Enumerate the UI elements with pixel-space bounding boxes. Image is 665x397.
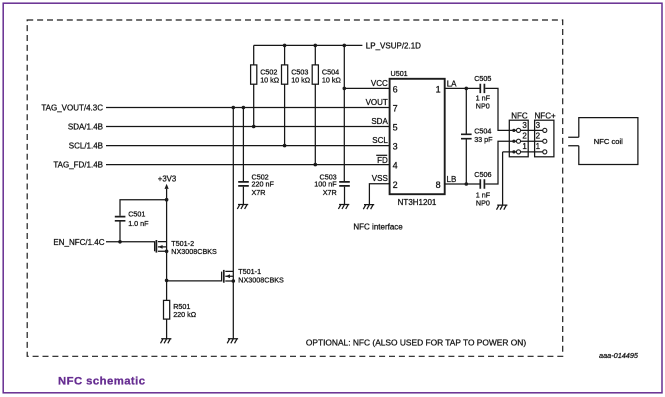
svg-text:NFC interface: NFC interface — [353, 222, 403, 231]
svg-text:4: 4 — [393, 161, 398, 171]
svg-text:U501: U501 — [391, 69, 408, 78]
wire T501-1 drain/source column — [232, 108, 234, 339]
ground (C502) — [237, 204, 248, 209]
svg-text:NP0: NP0 — [476, 198, 490, 207]
svg-text:NX3008CBKS: NX3008CBKS — [171, 247, 217, 256]
capacitor C504 33pF between LA and LB — [465, 88, 467, 184]
svg-text:TAG_FD/1.4B: TAG_FD/1.4B — [53, 161, 103, 170]
svg-text:FD: FD — [377, 156, 388, 165]
svg-text:NX3008CBKS: NX3008CBKS — [238, 275, 284, 284]
resistor R501 220k — [166, 280, 168, 338]
svg-text:10 kΩ: 10 kΩ — [291, 75, 311, 84]
svg-text:1: 1 — [436, 85, 441, 95]
svg-text:NP0: NP0 — [476, 101, 490, 110]
svg-text:C506: C506 — [474, 170, 491, 179]
svg-text:C505: C505 — [474, 74, 491, 83]
resistor C504 10k (pull-up 3) — [314, 45, 316, 164]
svg-text:8: 8 — [436, 180, 441, 190]
svg-text:NFC coil: NFC coil — [594, 137, 623, 146]
svg-text:OPTIONAL: NFC (ALSO USED FOR T: OPTIONAL: NFC (ALSO USED FOR TAP TO POWE… — [306, 338, 526, 348]
ground (connector) — [497, 205, 508, 210]
svg-text:TAG_VOUT/4.3C: TAG_VOUT/4.3C — [41, 104, 103, 113]
wire ground to connector row1 — [503, 152, 543, 205]
svg-text:LB: LB — [447, 175, 457, 184]
wire: VCC to IC — [344, 87, 390, 89]
svg-text:NFC schematic: NFC schematic — [58, 376, 145, 388]
wire branch to C501 — [120, 200, 167, 242]
transistor T501-1 NX3008CBKS — [223, 270, 225, 283]
ground (T501-1) — [227, 339, 238, 344]
wire SCL row — [106, 145, 390, 147]
wire FD row — [106, 164, 390, 166]
svg-text:LA: LA — [447, 79, 457, 88]
svg-text:EN_NFC/1.4C: EN_NFC/1.4C — [53, 238, 104, 247]
ground (R501) — [161, 339, 172, 344]
transistor T501-2 NX3008CBKS — [155, 240, 157, 253]
capacitor C502 220nF on TAG_VOUT — [242, 108, 244, 182]
svg-text:SDA: SDA — [371, 117, 388, 126]
capacitor C501 1.0nF — [115, 217, 126, 221]
svg-text:C504: C504 — [474, 127, 491, 136]
svg-text:aaa-014495: aaa-014495 — [599, 351, 639, 360]
capacitor C506 1nF series (LB) — [480, 179, 484, 188]
dashed optional boundary box — [27, 20, 563, 356]
resistor C502 10k (pull-up 1) — [253, 45, 255, 126]
svg-text:10 kΩ: 10 kΩ — [322, 75, 342, 84]
wire TAG_VOUT row — [106, 107, 390, 109]
wire: LP_VSUP top rail — [254, 44, 363, 46]
wire EN_NFC to T501-2 gate — [106, 242, 155, 252]
svg-text:6: 6 — [393, 85, 398, 95]
svg-text:+3V3: +3V3 — [158, 175, 176, 184]
connector pin rows — [512, 129, 515, 132]
svg-text:2: 2 — [522, 132, 527, 141]
svg-text:SDA/1.4B: SDA/1.4B — [68, 123, 103, 132]
svg-text:NT3H1201: NT3H1201 — [398, 198, 437, 207]
IC U501 box — [390, 79, 445, 194]
wire LB row — [445, 183, 480, 185]
svg-text:NFC+: NFC+ — [535, 111, 556, 120]
wire SDA row — [106, 126, 390, 128]
capacitor C505 1nF series (LA) — [480, 84, 484, 93]
svg-text:33 pF: 33 pF — [474, 135, 493, 144]
wire VSS to ground — [369, 184, 390, 205]
svg-text:VSS: VSS — [372, 174, 388, 183]
svg-text:VOUT: VOUT — [366, 98, 388, 107]
svg-text:2: 2 — [393, 180, 398, 190]
svg-text:X7R: X7R — [323, 188, 337, 197]
svg-text:2: 2 — [536, 132, 541, 141]
svg-text:1: 1 — [522, 142, 527, 151]
svg-text:LP_VSUP/2.1D: LP_VSUP/2.1D — [366, 42, 421, 51]
wire to T501-1 gate — [167, 272, 222, 281]
junction to R501 / T501-1 gate — [165, 279, 169, 283]
svg-text:SCL: SCL — [372, 136, 388, 145]
resistor C503 10k (pull-up 2) — [284, 45, 286, 145]
wire LA row — [445, 87, 480, 89]
ground (VSS) — [363, 205, 374, 210]
svg-text:5: 5 — [393, 123, 398, 133]
svg-text:7: 7 — [393, 104, 398, 114]
svg-text:1: 1 — [536, 142, 541, 151]
svg-text:10 kΩ: 10 kΩ — [260, 75, 280, 84]
svg-text:SCL/1.4B: SCL/1.4B — [69, 142, 103, 151]
capacitor C503 100nF (VCC decoupling) — [339, 182, 350, 186]
wire C506 to connector row2 — [485, 141, 543, 184]
wire: VCC feed column down to C503 cap — [343, 45, 345, 181]
svg-text:NFC: NFC — [511, 111, 528, 120]
svg-text:1.0 nF: 1.0 nF — [128, 219, 149, 228]
svg-text:3: 3 — [393, 142, 398, 152]
ground (C503) — [338, 204, 349, 209]
svg-text:220 kΩ: 220 kΩ — [173, 310, 197, 319]
svg-text:X7R: X7R — [252, 188, 266, 197]
wire C505 to connector row3 — [485, 88, 543, 130]
NFC coil box (outside dashed area) — [568, 118, 638, 165]
svg-text:C501: C501 — [128, 210, 145, 219]
svg-text:3: 3 — [536, 121, 541, 130]
svg-text:3: 3 — [522, 121, 527, 130]
node junction dots on top rail — [283, 44, 287, 48]
svg-text:VCC: VCC — [371, 79, 388, 88]
